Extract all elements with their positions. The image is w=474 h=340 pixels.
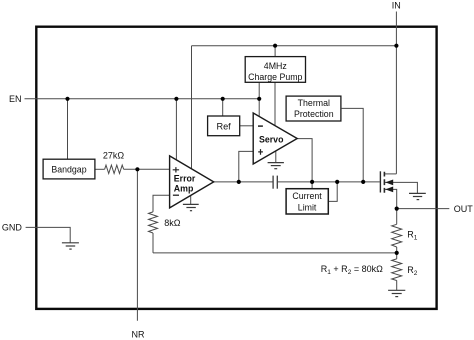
ground (GND pin) [62,243,79,249]
node servo output junction [310,180,314,184]
wire R1 bottom lead [396,247,398,253]
wire Error Amp ground stem [190,196,192,205]
wire GND pin lead [26,227,71,242]
node IN rail at pin [394,44,398,48]
svg-text:Limit: Limit [298,203,317,213]
svg-text:4MHz: 4MHz [264,61,287,71]
ground (R2) [388,290,405,296]
wire Ref to Servo minus input [240,125,254,127]
wire NR line [136,169,138,320]
ground (NMOS body) [409,193,426,199]
wire R2 top lead [396,253,398,259]
wire Servo plus input loop [239,151,253,182]
wire gate line right of cap [278,181,380,183]
ground (servo) [268,163,284,169]
wire Servo ground stem [275,151,277,162]
svg-text:IN: IN [392,1,401,11]
node current limit junction [335,180,339,184]
svg-text:NR: NR [132,330,145,340]
node servo plus tap [237,180,241,184]
Ref block [208,116,240,136]
wire charge pump top stub [274,46,276,56]
Bandgap block [43,159,95,179]
wire NMOS body to ground [385,182,417,193]
wire Thermal Protection to gate line [342,108,364,181]
svg-text:8kΩ: 8kΩ [164,218,181,228]
transistor Q1 pass NMOS [380,171,393,192]
svg-text:Thermal: Thermal [298,98,330,108]
node thermal junction [361,180,365,184]
svg-text:Amp: Amp [174,184,194,194]
svg-text:GND: GND [2,222,23,232]
node feedback tap [395,251,399,255]
wire IN top rail [192,45,397,47]
IC outline box [36,27,436,309]
svg-text:27kΩ: 27kΩ [103,150,125,160]
wire R2 ground stem [396,280,398,290]
wire 8k bottom lead [152,233,154,253]
capacitor C1 [273,176,277,189]
node IN rail at charge pump [273,44,277,48]
wire feedback line [153,252,397,254]
wire EN net [25,98,260,100]
resistor 8k [149,212,158,233]
svg-text:OUT: OUT [454,204,474,214]
4MHz charge pump block [245,57,305,83]
wire NMOS drain stub [385,173,396,175]
wire 27k to Error Amp plus input [124,168,170,170]
svg-text:Charge Pump: Charge Pump [248,72,302,82]
node EN junction at error amp [174,97,178,101]
svg-text:Protection: Protection [294,109,334,119]
wire charge pump to Servo right [274,82,276,125]
resistor R1 [392,224,402,247]
resistor 27k [105,165,124,173]
node OUT [395,207,399,211]
Thermal Protection block [286,96,341,121]
Current Limit block [286,189,328,214]
svg-text:EN: EN [9,94,22,104]
wire R1 top lead [396,209,398,225]
wire EN to Error Amp enable [175,99,177,160]
wire Servo output [297,139,312,182]
wire Current Limit output loop [328,182,337,202]
wire IN pin line [395,12,397,174]
node EN junction at servo [257,97,261,101]
op-amp Servo [253,113,297,164]
wire OUT line [397,208,450,210]
wire Error Amp minus input [153,195,170,212]
svg-text:Servo: Servo [259,135,284,145]
node EN junction at ref [221,97,225,101]
wire NMOS source stub [385,189,397,208]
svg-text:Current: Current [292,191,322,201]
node EN junction at bandgap [65,97,69,101]
wire Current Limit top stub [311,182,313,189]
resistor R2 [392,259,402,281]
op-amp Error Amp [170,156,214,208]
wire gate line left of cap [214,181,273,183]
ground (error amp) [183,204,199,210]
node NR junction [135,167,139,171]
wire charge pump to Servo left [258,82,260,116]
wire Bandgap output lead [95,168,105,170]
wire EN to Bandgap [67,99,69,159]
svg-text:Ref: Ref [216,121,231,131]
svg-text:Bandgap: Bandgap [51,165,86,175]
wire EN to Ref [222,99,224,116]
svg-text:Error: Error [174,173,196,183]
wire IN rail drop to Error Amp [191,46,193,169]
